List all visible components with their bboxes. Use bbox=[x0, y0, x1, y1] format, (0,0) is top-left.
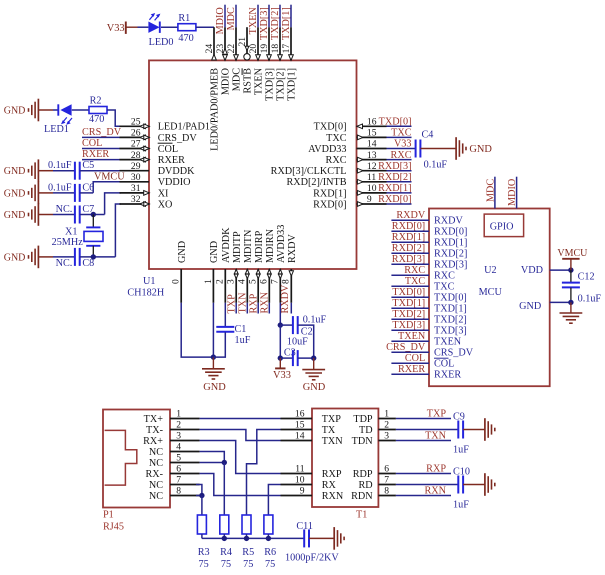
wire bbox=[391, 329, 429, 331]
svg-text:7: 7 bbox=[384, 475, 389, 486]
svg-text:4: 4 bbox=[237, 279, 248, 284]
svg-text:RXC: RXC bbox=[434, 270, 455, 281]
label C1 bbox=[235, 324, 247, 335]
svg-text:GND: GND bbox=[4, 188, 26, 199]
svg-text:RDP: RDP bbox=[353, 469, 373, 480]
net label RXD[1] bbox=[378, 183, 411, 194]
svg-text:AVDDK: AVDDK bbox=[221, 227, 232, 263]
node junction bbox=[244, 536, 249, 541]
pin name TXC bbox=[326, 133, 347, 144]
pin direction marker bbox=[245, 269, 249, 278]
svg-text:GND: GND bbox=[469, 144, 492, 155]
svg-text:NC: NC bbox=[149, 447, 163, 458]
net label TXD[3] bbox=[259, 7, 270, 40]
wire bbox=[387, 125, 412, 127]
label R1 bbox=[178, 13, 190, 24]
svg-text:7: 7 bbox=[176, 475, 181, 486]
pin direction marker bbox=[140, 124, 150, 129]
pin GND bbox=[519, 301, 571, 312]
capacitor C5 bbox=[75, 162, 80, 180]
net label TXD[2] bbox=[270, 7, 281, 40]
net label RXC bbox=[404, 265, 425, 276]
wire bbox=[38, 170, 75, 172]
label 75 bbox=[221, 559, 231, 570]
pin 15 TXC bbox=[357, 128, 387, 139]
pin name TXD[3] bbox=[434, 325, 467, 336]
svg-text:CRS_DV: CRS_DV bbox=[158, 133, 198, 144]
svg-text:9: 9 bbox=[367, 194, 372, 205]
label P1 bbox=[103, 509, 114, 520]
svg-text:1uF: 1uF bbox=[453, 500, 469, 511]
pin direction marker bbox=[357, 179, 363, 184]
pin direction marker bbox=[289, 55, 294, 61]
wire bbox=[201, 496, 203, 516]
pin 12 RXD[3]/CLKCTL bbox=[357, 161, 387, 172]
label LED0 bbox=[149, 37, 174, 48]
label 75 bbox=[199, 559, 209, 570]
wire bbox=[391, 351, 429, 353]
wire bbox=[72, 109, 89, 111]
svg-text:R2: R2 bbox=[90, 96, 102, 107]
wire bbox=[290, 303, 292, 314]
net label RXER bbox=[398, 364, 425, 375]
pin 9 RXN bbox=[281, 486, 344, 502]
pin 15 TX bbox=[281, 420, 336, 436]
wire bbox=[200, 462, 225, 464]
wire bbox=[279, 325, 281, 358]
pin name CRS_DV bbox=[434, 347, 474, 358]
svg-text:RSTB: RSTB bbox=[243, 68, 254, 94]
pin 27 COL bbox=[120, 139, 150, 150]
net label TXP bbox=[227, 294, 238, 314]
label 0.1uF bbox=[48, 160, 72, 171]
svg-text:GND: GND bbox=[203, 382, 226, 393]
svg-text:P1: P1 bbox=[103, 509, 114, 520]
svg-text:13: 13 bbox=[367, 150, 377, 161]
svg-text:TXD[1]: TXD[1] bbox=[287, 68, 298, 101]
svg-text:0.1uF: 0.1uF bbox=[48, 160, 72, 171]
svg-text:MDC: MDC bbox=[485, 179, 496, 202]
crystal X1 bbox=[84, 227, 103, 245]
pin 11 RXP bbox=[281, 464, 342, 480]
label NC. bbox=[56, 204, 73, 215]
pin 28 RXER bbox=[120, 150, 150, 161]
pin direction marker bbox=[212, 54, 217, 60]
label U1 bbox=[143, 276, 155, 287]
pin name TXD[1] bbox=[287, 68, 298, 101]
svg-text:TXN: TXN bbox=[238, 292, 249, 314]
ground bbox=[485, 418, 495, 441]
pin 6 MDIRN bbox=[259, 269, 270, 303]
pin direction marker bbox=[289, 271, 293, 276]
svg-text:31: 31 bbox=[131, 183, 141, 194]
svg-text:TX+: TX+ bbox=[144, 414, 164, 425]
svg-text:MDIO: MDIO bbox=[215, 7, 226, 34]
wire bbox=[267, 534, 269, 538]
wire bbox=[391, 318, 429, 320]
label 0.1uF bbox=[424, 160, 448, 171]
svg-text:RDN: RDN bbox=[351, 491, 373, 502]
svg-text:C6: C6 bbox=[82, 182, 94, 193]
pin 20 TXEN bbox=[248, 27, 259, 60]
svg-text:C8: C8 bbox=[82, 258, 94, 269]
svg-text:6: 6 bbox=[176, 464, 181, 475]
pin name GND bbox=[209, 241, 220, 263]
net label TXD[2] bbox=[392, 309, 425, 320]
net label RXD[1] bbox=[392, 232, 425, 243]
svg-text:RXC: RXC bbox=[326, 155, 347, 166]
pin 14 AVDD33 bbox=[357, 139, 387, 150]
node XI junction bbox=[91, 212, 96, 217]
svg-text:3: 3 bbox=[226, 279, 237, 284]
ground bbox=[485, 473, 495, 496]
wire bbox=[223, 463, 225, 516]
wire bbox=[391, 285, 429, 287]
pin name RXDV bbox=[287, 233, 298, 263]
wire bbox=[201, 534, 203, 538]
label 25MHz bbox=[52, 237, 84, 248]
svg-text:R1: R1 bbox=[178, 13, 190, 24]
LED LED1 bbox=[58, 104, 72, 125]
svg-text:MDC: MDC bbox=[232, 68, 243, 91]
GPIO box bbox=[484, 214, 523, 237]
wire bbox=[247, 430, 281, 516]
svg-text:RXD[3]: RXD[3] bbox=[434, 259, 467, 270]
svg-text:CRS_DV: CRS_DV bbox=[386, 342, 426, 353]
pin name RXD[1] bbox=[434, 237, 467, 248]
net label RXN bbox=[424, 486, 446, 497]
net label TXN bbox=[238, 292, 249, 314]
net label RXDV bbox=[280, 284, 291, 314]
capacitor C10 bbox=[458, 476, 463, 494]
wire bbox=[290, 5, 292, 28]
wire bbox=[161, 26, 178, 28]
pin 8 RXDV bbox=[281, 269, 292, 303]
ground bbox=[4, 182, 39, 205]
pin 4 NC bbox=[149, 442, 200, 458]
svg-text:GND: GND bbox=[209, 241, 220, 263]
net label MDC bbox=[226, 7, 237, 30]
node junction bbox=[222, 460, 227, 465]
label R5 bbox=[242, 547, 254, 558]
capacitor C11 bbox=[304, 529, 309, 547]
pin name RXD[3]/CLKCTL bbox=[271, 166, 347, 177]
svg-text:RX: RX bbox=[322, 480, 337, 491]
svg-text:RXER: RXER bbox=[158, 155, 185, 166]
svg-text:75: 75 bbox=[199, 559, 209, 570]
pin direction marker bbox=[357, 157, 363, 162]
svg-text:AVDD33: AVDD33 bbox=[308, 144, 346, 155]
capacitor C8 bbox=[75, 248, 80, 266]
node XO junction bbox=[91, 254, 96, 259]
net label TXC bbox=[405, 276, 426, 287]
label C3 bbox=[284, 347, 296, 358]
pin 16 TXD[0] bbox=[357, 117, 387, 128]
capacitor C3 bbox=[293, 350, 298, 366]
ground bbox=[4, 159, 39, 182]
svg-text:18: 18 bbox=[270, 44, 281, 54]
pin 7 RD bbox=[358, 475, 395, 491]
svg-text:6: 6 bbox=[384, 464, 389, 475]
svg-text:20: 20 bbox=[248, 44, 259, 54]
svg-text:LED0/PAD0/PMEB: LED0/PAD0/PMEB bbox=[210, 68, 221, 151]
wire bbox=[80, 170, 120, 172]
svg-text:3: 3 bbox=[384, 431, 389, 442]
svg-text:TXD[0]: TXD[0] bbox=[392, 287, 425, 298]
svg-text:NC.: NC. bbox=[56, 258, 73, 269]
svg-text:RXD[1]: RXD[1] bbox=[392, 232, 425, 243]
pin name MDIRN bbox=[265, 228, 276, 263]
pin 22 MDC bbox=[226, 27, 237, 60]
wire bbox=[196, 26, 214, 28]
pin name TXD[0] bbox=[434, 292, 467, 303]
svg-text:0.1uF: 0.1uF bbox=[303, 314, 327, 325]
pin name MDITP bbox=[232, 231, 243, 263]
net label TXD[0] bbox=[392, 287, 425, 298]
wire bbox=[396, 418, 451, 420]
svg-text:GND: GND bbox=[4, 252, 26, 263]
svg-text:NC: NC bbox=[149, 458, 163, 469]
node junction bbox=[568, 300, 573, 305]
wire bbox=[463, 484, 485, 486]
pin 4 MDITN bbox=[237, 269, 248, 303]
wire bbox=[387, 203, 412, 205]
pin 5 NC bbox=[149, 453, 200, 469]
pin 21 RSTB bbox=[237, 27, 248, 53]
pin name TXD[0] bbox=[314, 122, 347, 133]
node junction bbox=[311, 355, 316, 360]
svg-text:R4: R4 bbox=[220, 547, 232, 558]
pin name VDDIO bbox=[158, 177, 191, 188]
wire bbox=[82, 148, 120, 150]
pin 1 TDP bbox=[353, 409, 396, 425]
svg-text:MDITP: MDITP bbox=[232, 231, 243, 263]
wire bbox=[298, 325, 314, 358]
wire bbox=[391, 252, 429, 254]
wire bbox=[391, 296, 429, 298]
svg-text:DVDDK: DVDDK bbox=[158, 166, 195, 177]
ground bbox=[560, 302, 583, 323]
pin name RXDV bbox=[434, 215, 464, 226]
pin 7 AVDD33 bbox=[270, 269, 281, 303]
resistor R3 bbox=[197, 515, 206, 534]
wire bbox=[200, 452, 225, 463]
ground bbox=[302, 358, 325, 393]
svg-text:VDDIO: VDDIO bbox=[158, 177, 191, 188]
net label RXD[3] bbox=[392, 254, 425, 265]
capacitor C4 bbox=[416, 140, 421, 158]
resistor R2 bbox=[89, 107, 107, 114]
svg-text:TX: TX bbox=[322, 425, 336, 436]
svg-text:RXD[0]: RXD[0] bbox=[313, 199, 346, 210]
svg-text:NC: NC bbox=[149, 491, 163, 502]
IC U2 body bbox=[429, 209, 550, 387]
svg-text:GPIO: GPIO bbox=[490, 222, 514, 233]
svg-text:C10: C10 bbox=[453, 466, 470, 477]
net label TXEN bbox=[398, 331, 426, 342]
svg-text:NC: NC bbox=[149, 480, 163, 491]
svg-text:C11: C11 bbox=[296, 521, 313, 532]
svg-text:TDP: TDP bbox=[353, 414, 373, 425]
label C8 bbox=[82, 258, 94, 269]
svg-text:CRS_DV: CRS_DV bbox=[434, 347, 474, 358]
label C12 bbox=[578, 271, 595, 282]
node junction bbox=[568, 267, 573, 272]
pin direction marker bbox=[267, 55, 272, 61]
wire bbox=[80, 214, 105, 216]
svg-text:2: 2 bbox=[176, 420, 181, 431]
svg-text:CH182H: CH182H bbox=[127, 287, 164, 298]
svg-text:TXEN: TXEN bbox=[398, 331, 426, 342]
wire bbox=[212, 303, 214, 357]
net label RXD[2] bbox=[378, 172, 411, 183]
wire bbox=[235, 303, 237, 314]
wire bbox=[92, 215, 94, 228]
svg-text:5: 5 bbox=[248, 279, 259, 284]
svg-text:TXD[3]: TXD[3] bbox=[259, 7, 270, 40]
svg-text:24: 24 bbox=[204, 44, 215, 54]
pin name RXER bbox=[434, 369, 461, 380]
wire bbox=[387, 148, 416, 150]
pin 10 RX bbox=[281, 475, 337, 491]
pin name XI bbox=[158, 188, 169, 199]
svg-text:U1: U1 bbox=[143, 276, 155, 287]
pin 25 LED1/PAD1 bbox=[120, 117, 150, 128]
pin 9 RXD[0] bbox=[357, 194, 387, 205]
pin 6 RX- bbox=[145, 464, 199, 480]
pin 3 MDITP bbox=[226, 269, 237, 303]
net label CRS_DV bbox=[386, 342, 426, 353]
label C11 bbox=[296, 521, 313, 532]
label C5 bbox=[82, 160, 94, 171]
label RJ45 bbox=[103, 521, 124, 532]
svg-text:V33: V33 bbox=[273, 370, 291, 381]
wire bbox=[396, 473, 451, 475]
pin direction marker bbox=[357, 202, 363, 207]
svg-text:CRS_DV: CRS_DV bbox=[82, 127, 122, 138]
label CH182H bbox=[127, 287, 164, 298]
net label RXP bbox=[249, 293, 260, 313]
label 0.1uF bbox=[303, 314, 327, 325]
pin name XO bbox=[158, 199, 173, 210]
IC U1 body bbox=[149, 60, 357, 269]
net label TXD[1] bbox=[281, 7, 292, 40]
pin name MDIO bbox=[221, 68, 232, 95]
node junction bbox=[278, 355, 283, 360]
pin 13 RXC bbox=[357, 150, 387, 161]
svg-text:1uF: 1uF bbox=[453, 445, 469, 456]
wire bbox=[391, 340, 429, 342]
pin name GND bbox=[177, 241, 188, 263]
svg-text:TXP: TXP bbox=[227, 294, 238, 314]
svg-text:25: 25 bbox=[131, 117, 141, 128]
svg-text:0.1uF: 0.1uF bbox=[48, 182, 72, 193]
wire bbox=[387, 170, 412, 172]
wire bbox=[391, 373, 429, 375]
svg-text:COL: COL bbox=[434, 358, 454, 369]
pin name MDC bbox=[232, 68, 243, 91]
wire bbox=[93, 182, 121, 193]
connector P1 body bbox=[103, 410, 170, 508]
pin name MDIRP bbox=[254, 230, 265, 263]
svg-text:TXN: TXN bbox=[322, 436, 344, 447]
wire bbox=[391, 230, 429, 232]
pin name AVDDK bbox=[221, 227, 232, 263]
net label MDC bbox=[485, 179, 496, 202]
svg-text:15: 15 bbox=[295, 420, 305, 431]
pin 21 inversion bubble bbox=[244, 54, 250, 60]
pin name TXD[1] bbox=[434, 303, 467, 314]
pin direction marker bbox=[357, 124, 363, 129]
svg-text:RXDV: RXDV bbox=[280, 284, 291, 314]
svg-text:TXC: TXC bbox=[326, 133, 347, 144]
svg-text:MDIO: MDIO bbox=[221, 68, 232, 95]
pin direction marker bbox=[278, 269, 282, 278]
svg-text:TXD[0]: TXD[0] bbox=[314, 122, 347, 133]
pin name TXC bbox=[434, 281, 455, 292]
svg-text:RXD[2]: RXD[2] bbox=[434, 248, 467, 259]
label 10uF bbox=[287, 336, 308, 347]
svg-text:RXDV: RXDV bbox=[434, 215, 464, 226]
ground bbox=[456, 137, 492, 160]
pin name RXD[2]/INTB bbox=[287, 177, 347, 188]
pin direction marker bbox=[140, 202, 150, 207]
net label RXN bbox=[260, 291, 271, 313]
svg-text:AVDD33: AVDD33 bbox=[276, 225, 287, 263]
pin VDD bbox=[521, 265, 571, 276]
svg-text:MCU: MCU bbox=[479, 287, 503, 298]
transformer T1 body bbox=[312, 409, 378, 508]
wire bbox=[224, 5, 226, 28]
svg-text:C1: C1 bbox=[235, 324, 247, 335]
wire bbox=[391, 241, 429, 243]
net label RXD[2] bbox=[392, 243, 425, 254]
svg-text:RXER: RXER bbox=[82, 149, 109, 160]
pin 14 TXN bbox=[281, 431, 344, 447]
net label RXD[0] bbox=[392, 221, 425, 232]
wire bbox=[246, 534, 248, 538]
wire bbox=[200, 474, 281, 496]
pin 8 RDN bbox=[351, 486, 396, 502]
connector P1 keying profile bbox=[105, 430, 137, 485]
svg-text:3: 3 bbox=[176, 431, 181, 442]
wire bbox=[463, 429, 485, 431]
wire bbox=[105, 193, 121, 215]
svg-text:0.1uF: 0.1uF bbox=[578, 293, 602, 304]
capacitor C12 bbox=[562, 270, 580, 302]
svg-text:TXEN: TXEN bbox=[254, 67, 265, 95]
pin name RXD[0] bbox=[434, 226, 467, 237]
svg-text:RXC: RXC bbox=[404, 265, 425, 276]
svg-text:16: 16 bbox=[367, 117, 377, 128]
svg-text:29: 29 bbox=[131, 161, 141, 172]
label 1000pF/2KV bbox=[285, 552, 339, 563]
svg-text:MDIRN: MDIRN bbox=[265, 228, 276, 263]
wire bbox=[115, 204, 121, 257]
pin name RXD[2] bbox=[434, 248, 467, 259]
svg-text:RXD[3]/CLKCTL: RXD[3]/CLKCTL bbox=[271, 166, 347, 177]
capacitor C6 bbox=[75, 184, 80, 202]
svg-text:R6: R6 bbox=[264, 547, 276, 558]
net label MDIO bbox=[507, 179, 518, 206]
svg-text:LED1: LED1 bbox=[44, 124, 69, 135]
svg-text:COL: COL bbox=[82, 138, 102, 149]
wire bbox=[396, 495, 451, 497]
label 1uF bbox=[453, 445, 469, 456]
pin direction marker bbox=[140, 146, 150, 151]
label R4 bbox=[220, 547, 232, 558]
wire bbox=[224, 303, 226, 327]
